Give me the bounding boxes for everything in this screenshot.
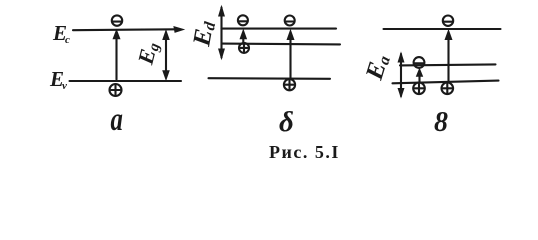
svg-text:а: а bbox=[111, 102, 123, 138]
svg-text:Ed: Ed bbox=[188, 18, 219, 49]
svg-text:Ea: Ea bbox=[361, 51, 394, 83]
svg-text:Ev: Ev bbox=[49, 67, 67, 92]
svg-text:Ec: Ec bbox=[52, 21, 70, 46]
svg-text:Eg: Eg bbox=[132, 39, 163, 68]
svg-text:δ: δ bbox=[279, 106, 294, 138]
svg-text:Рис. 5.I: Рис. 5.I bbox=[269, 142, 340, 162]
svg-text:8: 8 bbox=[434, 107, 448, 138]
